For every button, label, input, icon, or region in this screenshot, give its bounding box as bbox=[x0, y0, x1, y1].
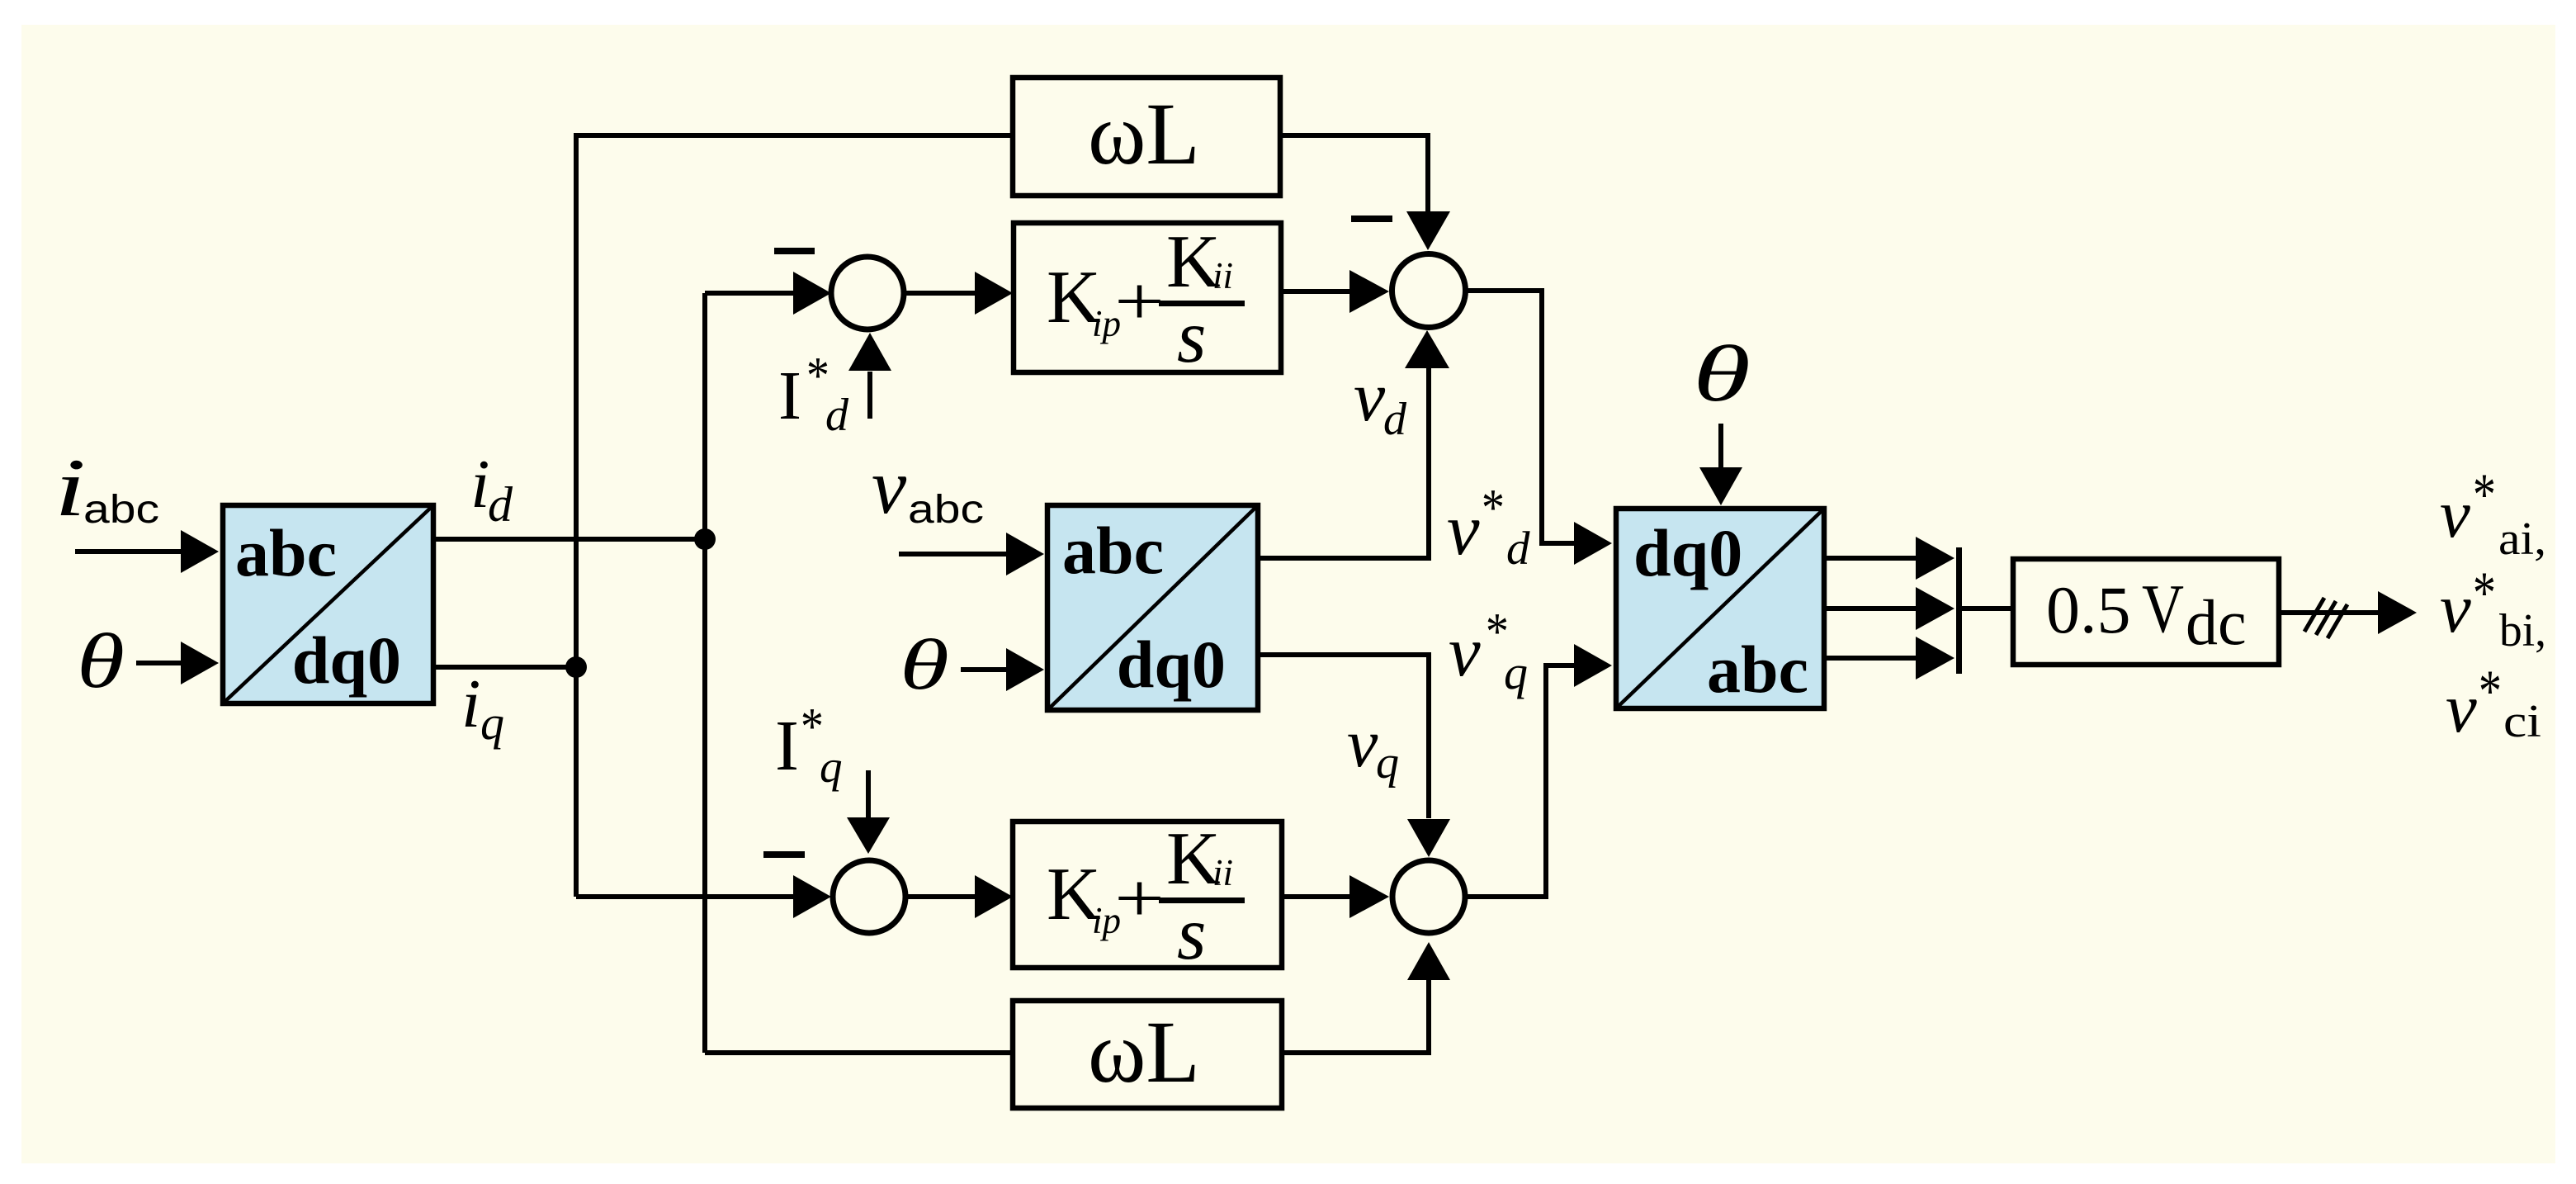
wire i_d bbox=[433, 537, 705, 542]
block abc/dq0 middle bbox=[1047, 505, 1258, 710]
svg-text:*: * bbox=[1482, 479, 1505, 537]
wire omega-L bottom output bbox=[1282, 980, 1429, 1053]
svg-text:i: i bbox=[54, 442, 86, 533]
wire v_d feedforward bbox=[1256, 368, 1429, 558]
svg-text:abc: abc bbox=[235, 515, 337, 590]
block abc/dq0 left bbox=[223, 505, 433, 703]
wire dq0/abc output c bbox=[1824, 656, 1917, 661]
svg-text:q: q bbox=[1504, 646, 1528, 699]
wire S1 to PI1 bbox=[904, 291, 976, 296]
svg-text:*: * bbox=[2479, 657, 2502, 723]
svg-text:v: v bbox=[1347, 705, 1378, 782]
wire PI2 to S4 bbox=[1282, 894, 1350, 899]
node i_d junction bbox=[694, 528, 716, 550]
svg-text:v: v bbox=[1354, 357, 1386, 436]
three-phase slash marks bbox=[2304, 598, 2347, 638]
arrowhead into d-sum bbox=[793, 272, 831, 315]
wire PI1 to S2 bbox=[1281, 289, 1350, 294]
svg-text:dq0: dq0 bbox=[1633, 515, 1742, 590]
summing junction S1 bbox=[831, 257, 904, 329]
wire i_d vertical bbox=[702, 293, 707, 1053]
arrowhead i_abc bbox=[181, 530, 219, 573]
svg-text:V: V bbox=[2142, 571, 2184, 647]
svg-text:bi,: bi, bbox=[2499, 605, 2546, 656]
svg-text:s: s bbox=[1177, 892, 1206, 975]
minus sign S2 bbox=[1351, 215, 1392, 222]
svg-text:abc: abc bbox=[1062, 513, 1164, 588]
svg-text:I: I bbox=[775, 705, 799, 785]
arrowhead theta left bbox=[181, 642, 219, 684]
svg-text:dq0: dq0 bbox=[1117, 627, 1226, 702]
svg-text:θ: θ bbox=[1693, 329, 1751, 418]
wire v_abc input bbox=[899, 552, 1007, 556]
svg-text:ii: ii bbox=[1212, 255, 1233, 296]
wire v_q feedforward bbox=[1256, 655, 1429, 818]
svg-text:v: v bbox=[2446, 670, 2477, 747]
svg-text:d: d bbox=[1383, 394, 1407, 445]
wire i_abc input bbox=[75, 549, 182, 554]
minus sign d-sum bbox=[774, 248, 815, 254]
wire into d-sum bbox=[705, 291, 794, 296]
block omega-L top bbox=[1013, 78, 1280, 196]
svg-text:v: v bbox=[1447, 490, 1480, 571]
wire dq0/abc output b bbox=[1824, 606, 1917, 611]
svg-text:θ: θ bbox=[77, 618, 125, 704]
summing junction S4 bbox=[1392, 860, 1465, 933]
wire bar to 0.5Vdc bbox=[1962, 606, 2013, 611]
svg-text:+: + bbox=[1114, 263, 1165, 340]
wire theta middle input bbox=[961, 667, 1007, 672]
svg-text:abc: abc bbox=[83, 488, 159, 532]
svg-text:ai,: ai, bbox=[2498, 514, 2546, 565]
svg-text:dc: dc bbox=[2186, 586, 2247, 658]
svg-text:q: q bbox=[480, 696, 504, 750]
summing junction S3 bbox=[833, 860, 905, 933]
block omega-L bottom bbox=[1013, 1001, 1282, 1108]
summing junction S2 bbox=[1392, 254, 1466, 328]
wire S4 output to dq0/abc bbox=[1465, 665, 1575, 897]
wire into q-sum bbox=[576, 894, 794, 899]
svg-text:q: q bbox=[820, 741, 843, 792]
wire theta input (left) bbox=[136, 661, 182, 665]
svg-text:dq0: dq0 bbox=[292, 623, 401, 698]
wire output with three-phase slashes bbox=[2279, 610, 2380, 615]
block dq0/abc right bbox=[1616, 509, 1824, 708]
svg-text:I: I bbox=[778, 358, 801, 434]
svg-text:i: i bbox=[461, 665, 480, 742]
wire S2 output to dq0/abc bbox=[1466, 291, 1575, 543]
svg-text:d: d bbox=[825, 390, 849, 441]
svg-text:d: d bbox=[1506, 523, 1530, 575]
PI controller block q-axis bbox=[1013, 817, 1282, 975]
svg-text:d: d bbox=[488, 477, 513, 532]
svg-text:v: v bbox=[2440, 570, 2471, 647]
svg-text:v: v bbox=[2440, 476, 2470, 552]
svg-text:ci: ci bbox=[2503, 696, 2541, 747]
wire theta right input bbox=[1718, 424, 1723, 467]
node i_q junction bbox=[565, 656, 587, 678]
collector bar bbox=[1956, 547, 1962, 674]
wire dq0/abc output a bbox=[1824, 556, 1917, 561]
wire i_q vertical to top bbox=[576, 135, 1013, 897]
minus sign q-sum bbox=[763, 851, 805, 858]
PI controller block d-axis bbox=[1014, 220, 1281, 378]
svg-text:abc: abc bbox=[908, 488, 984, 532]
svg-text:v: v bbox=[872, 443, 907, 530]
svg-text:q: q bbox=[1376, 737, 1399, 789]
I*d reference arrow bbox=[867, 372, 872, 419]
svg-text:ωL: ωL bbox=[1088, 1004, 1200, 1101]
svg-text:i: i bbox=[470, 446, 489, 523]
svg-text:abc: abc bbox=[1707, 632, 1808, 707]
svg-text:+: + bbox=[1114, 860, 1165, 937]
block 0.5 Vdc bbox=[2013, 559, 2279, 665]
wire S3 to PI2 bbox=[905, 894, 976, 899]
svg-text:v: v bbox=[1449, 611, 1481, 691]
svg-text:θ: θ bbox=[900, 624, 949, 704]
svg-text:s: s bbox=[1177, 295, 1206, 378]
I*q reference arrow bbox=[866, 770, 871, 817]
svg-text:ωL: ωL bbox=[1088, 86, 1200, 183]
svg-text:ii: ii bbox=[1212, 852, 1233, 893]
wire i_q bbox=[433, 665, 576, 670]
svg-text:0.5: 0.5 bbox=[2046, 572, 2131, 647]
wire i_d to omega-L bottom bbox=[705, 1050, 1013, 1055]
svg-text:*: * bbox=[2473, 559, 2496, 625]
wire omega-L top output bbox=[1280, 135, 1428, 211]
svg-text:*: * bbox=[2473, 461, 2496, 527]
